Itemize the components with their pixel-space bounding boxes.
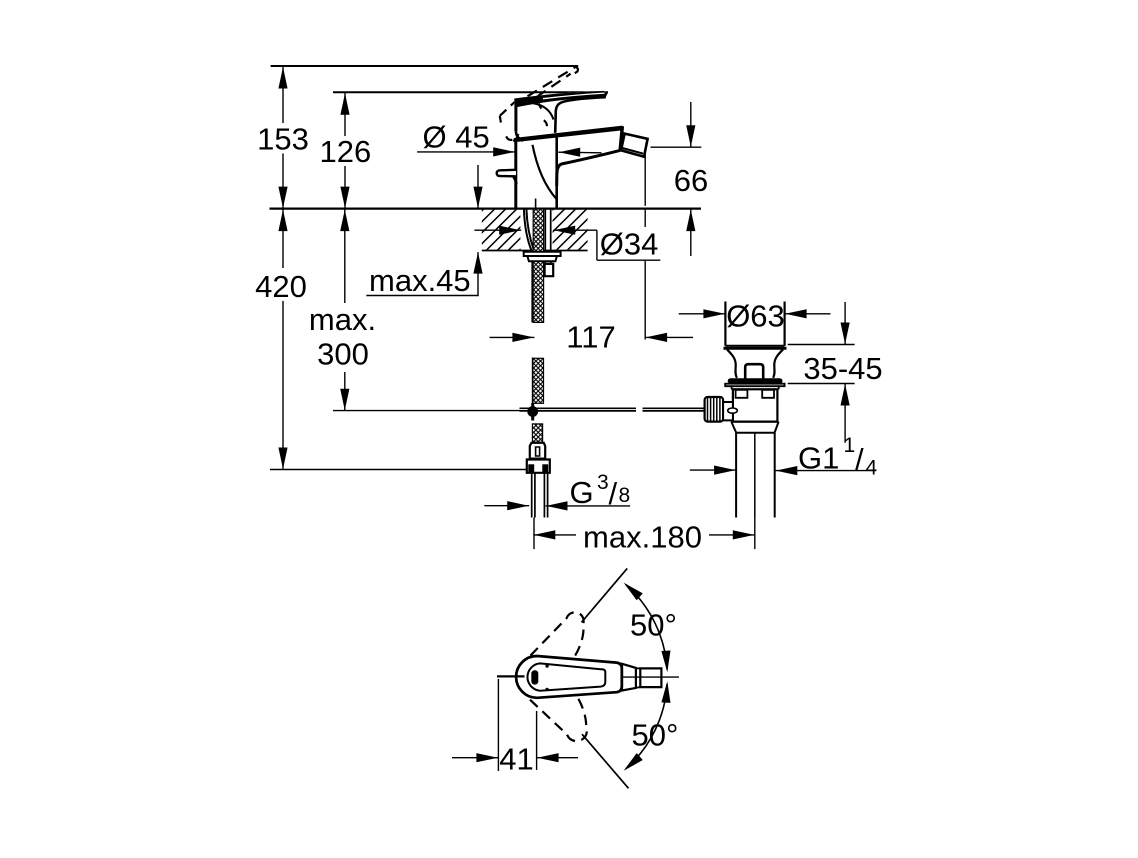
dim 41 arrow left [537,753,559,762]
waste seal ring (dark) [728,378,783,383]
dim max.45 upper line [477,165,479,209]
svg-text:/: / [609,476,618,511]
dashed raised lever dome dash 2 [544,120,547,128]
dashed raised lever dome dash 1 [539,103,542,108]
50deg upper arc arrow top [624,583,643,601]
dim max.45 arrow down at deck [473,187,482,209]
waste body notch right [762,390,774,398]
dim 420 line upper [282,209,284,268]
dim O34 underline [597,259,660,261]
braided hose segment 3 [533,358,544,403]
cartridge dome arc [534,103,554,119]
slab bottom line [482,250,588,252]
dim O45 right line [558,151,601,154]
G3/8 nut dark right [542,464,548,472]
dim 126 arrow down [340,187,349,209]
dim 153 arrow up [278,67,287,89]
dashed handle rotated down [530,693,587,742]
ball junction [527,406,538,417]
dim G1-1/4 arrow right [714,466,736,475]
faucet body left edge [514,142,517,209]
svg-text:G: G [570,475,594,510]
waste valve body [733,389,778,421]
svg-text:Ø 45: Ø 45 [423,120,490,155]
dim max.300 arrow up [340,210,349,232]
dim 41 arrow right [476,753,498,762]
plan aerator ring lines [636,668,640,687]
slab hatch left block [430,209,638,252]
hose curve left wall [524,209,532,252]
waste seal flange [725,384,784,387]
dim max.300 bottom tick line [333,410,520,412]
dim 420 line lower [282,301,284,470]
dim max.180 right line [709,534,755,536]
slab hatch right block [500,209,642,252]
dim 126 line lower [344,166,346,209]
deck / mounting surface line [270,208,702,210]
svg-text:41: 41 [499,741,533,776]
50deg lower arc arrow bottom [624,753,643,771]
dim max.180 left line [533,534,576,536]
dim G1-1/4 left line [690,469,736,471]
dim 35-45 tick bottom [788,383,855,385]
G3/8 nut [527,460,550,473]
svg-text:126: 126 [320,134,372,169]
dim max.180 arrow right [733,530,755,539]
dim max.300 arrow down [340,389,349,411]
braided hose segment 2 [533,262,543,323]
hose end fitting slot [536,447,540,456]
lever blade fill [514,91,608,133]
waste knob square [745,364,763,379]
dim max.300 line lower [344,372,346,411]
dashed raised lever blade top edge [528,67,576,96]
dim O63 right line [785,313,831,315]
dim 41 left line [452,757,498,759]
dim G1-1/4 arrow left [776,466,798,475]
dim 35-45 arrow up [841,384,850,406]
50deg lower arc [626,684,667,769]
svg-text:66: 66 [674,163,708,198]
svg-text:35-45: 35-45 [803,351,882,386]
spout top band (thick) [514,126,623,143]
dim 35-45 arrow down [841,323,850,345]
nozzle projection extension line [644,147,646,206]
rod knurled cap [705,397,724,422]
dashed raised lever neck rear edge [500,116,501,123]
dim 117 arrow right [512,333,534,342]
mounting washer [524,252,561,256]
svg-text:Ø34: Ø34 [600,227,659,262]
svg-text:8: 8 [619,484,631,507]
top reference line (max handle height) [271,65,579,67]
svg-text:4: 4 [866,457,878,480]
aerator inner line [622,148,643,154]
dim 66 upper line [690,102,692,147]
body inner curve [533,145,557,199]
dim 117 left line [490,336,535,338]
dim O34 right line [553,229,597,231]
waste neck taper left [727,349,737,378]
lever neck left edge [514,104,517,131]
dim 41 right line [537,757,578,759]
supply pipe [531,473,533,517]
spout end face [620,126,622,150]
50deg upper arc arrow bottom [661,651,670,673]
dim 126 line upper [344,92,346,136]
lever neck corner [516,131,523,140]
dim max.180 arrow left [534,530,556,539]
hose end fitting [530,443,545,459]
svg-text:max.180: max.180 [583,519,702,554]
dim G3/8 arrow right [507,501,529,510]
dashed raised lever neck corner [506,136,512,140]
waste flange underside [725,345,784,347]
dim 35-45 lower line [844,384,846,443]
dim max.300 line upper [344,209,346,303]
waste tailpipe [735,433,737,518]
rod cap connector [723,402,733,420]
svg-text:G1: G1 [798,441,839,476]
svg-text:153: 153 [257,122,309,157]
50deg lower radius line [582,734,629,788]
dim 35-45 upper line [844,302,846,345]
faucet body right edge [555,138,558,209]
dim 35-45 tick top [788,344,855,346]
dim G1-1/4 underline [775,470,876,472]
dim O34 leader vertical [596,230,598,260]
plan centerline [607,676,679,678]
pop-up rod tube below deck [544,209,546,264]
horizontal rod left segment [520,407,637,409]
plan pop-up knob line [497,675,525,677]
dashed raised lever neck left edge [500,102,515,116]
dim O63 arrow left [785,309,807,318]
braided hose upper segment [533,209,543,252]
dim O45 arrow left [559,148,581,157]
50deg lower arc arrow top [661,681,670,703]
rod pivot oval [728,408,738,413]
dim 117 right line [645,336,693,338]
dim G3/8 left line [484,505,529,507]
lever neck corner arc [513,134,519,141]
svg-text:50°: 50° [632,718,679,753]
plan spout collar [622,664,636,691]
50deg upper arc [626,585,667,670]
dim O63 left line [679,313,726,315]
pop-up rod inside body [535,199,537,209]
dim 41 left ext line [497,679,499,771]
dim 66 arrow up [686,210,695,232]
dim max.180 left ext line [533,518,535,550]
dim 420 bottom tick line [270,469,528,471]
dim 420 arrow up [278,210,287,232]
svg-text:1: 1 [844,434,856,457]
lever blade top edge highlight [543,93,605,99]
plan handle inner line [527,663,605,690]
aerator nozzle [621,134,648,157]
waste body notch left [736,390,748,398]
hose thin line segment 2 [531,262,533,323]
plan aerator [640,668,661,687]
pop-up knob on body left [497,170,516,177]
lever blade underside [555,97,606,133]
svg-text:Ø63: Ø63 [726,299,785,334]
plan handle dot bottom [545,688,548,691]
spout underside [557,150,620,186]
dim 66 lower line [690,209,692,256]
waste flange right side [783,302,785,346]
dim O45 arrow right [493,147,515,156]
dim O34 arrow left [554,226,576,235]
handle-top reference line (126 level) [333,91,608,93]
dim max.45 underline [366,295,478,297]
svg-text:max.: max. [309,302,376,337]
dashed raised lever blade underside [537,74,571,97]
plan handle body [516,656,622,698]
dim 66 nozzle level tick [651,146,702,148]
svg-text:300: 300 [317,337,369,372]
hose thin line segment 3 [532,358,534,405]
dim 153 line lower [282,154,284,209]
waste neck taper right [773,349,783,378]
dim max.45 arrow up at slab bottom [473,252,482,274]
dim O34 arrow right [499,226,521,235]
dim 153 arrow down [278,187,287,209]
hose curve right wall [526,209,533,250]
svg-text:117: 117 [566,320,615,355]
dim 126 arrow up [340,93,349,115]
dim G3/8 arrow left [546,501,568,510]
waste body lower step [731,422,778,433]
dim max.180 right ext line [754,518,756,550]
dim 117 arrow left [646,333,668,342]
svg-text:3: 3 [597,471,609,494]
dim G3/8 underline [546,505,631,507]
mounting nut [527,256,557,261]
lever blade top edge (thick) [514,91,608,108]
dim O34 left line [474,229,521,231]
dim max.45 leader vertical [477,252,479,295]
plan handle slot [531,670,538,684]
svg-text:50°: 50° [630,608,677,643]
svg-text:/: / [855,442,864,477]
dim 41 right ext line [536,711,538,770]
horizontal rod right segment [643,407,705,409]
dashed raised lever tip cap [571,67,578,76]
dim 153 line upper [282,66,284,123]
svg-text:max.45: max.45 [369,263,471,298]
waste flange left side [724,302,726,346]
dashed handle rotated up [531,612,584,661]
braided hose segment 4 [532,424,542,442]
rod clamp [545,264,554,276]
plan handle dot top [545,664,548,667]
dim O45 left line with underline [417,151,515,153]
svg-text:420: 420 [255,269,307,304]
G3/8 nut dark left [528,464,534,472]
dim 66 arrow down [686,125,695,147]
waste body step [731,386,733,389]
dim 420 arrow down [278,448,287,470]
pop-up knob tick [513,176,517,183]
dim O63 arrow right [703,309,725,318]
50deg upper radius line [582,568,628,622]
